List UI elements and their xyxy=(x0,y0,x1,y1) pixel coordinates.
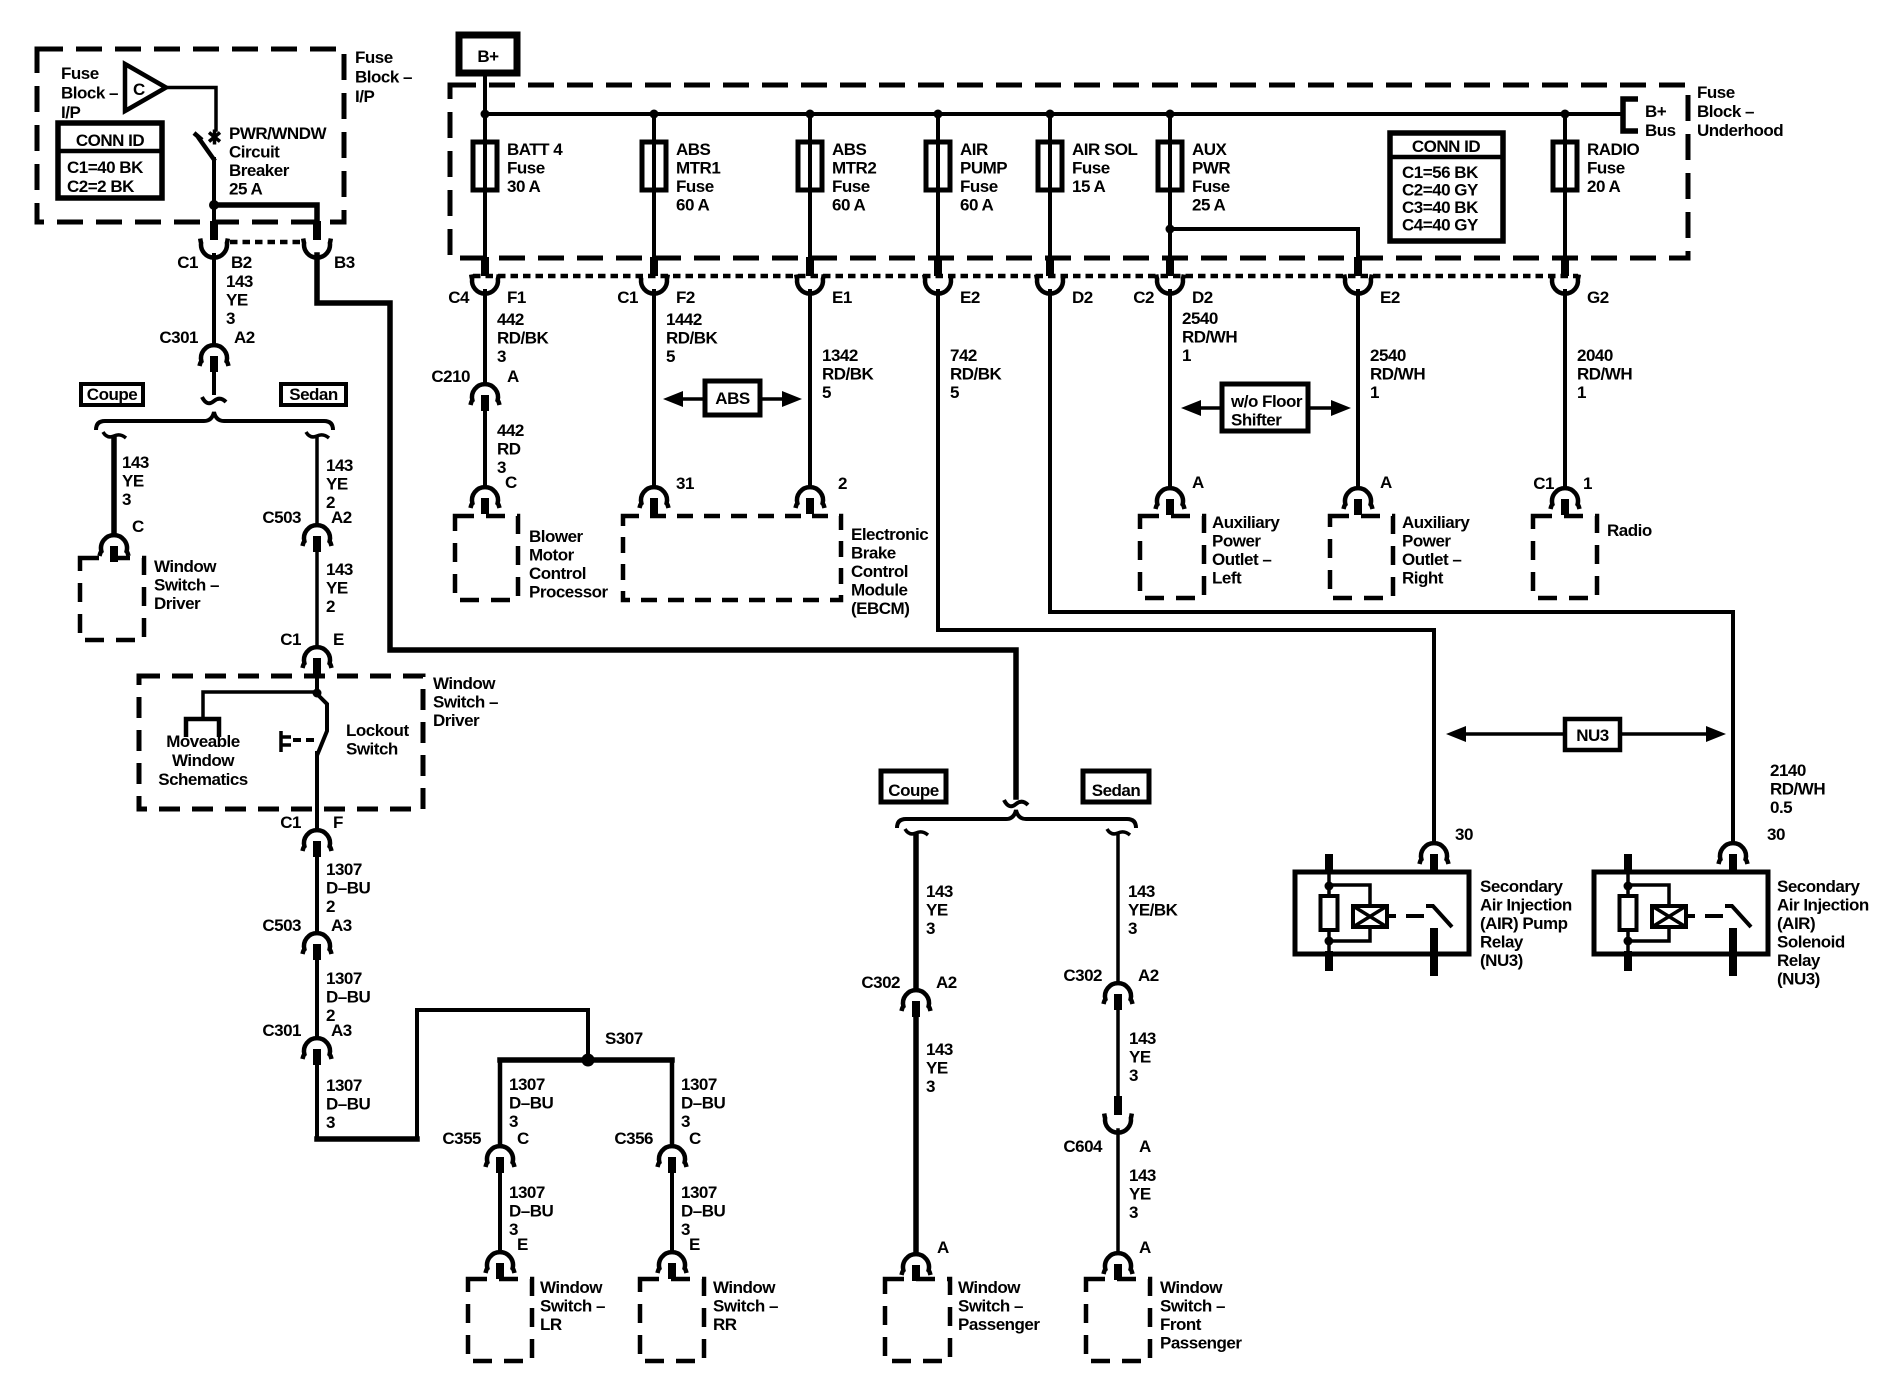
svg-text:Driver: Driver xyxy=(154,594,201,613)
svg-text:Switch –: Switch – xyxy=(713,1297,778,1316)
hook coupe passenger wire xyxy=(905,829,928,835)
NU3 label xyxy=(1576,726,1609,745)
svg-text:3: 3 xyxy=(326,1113,335,1132)
svg-text:30: 30 xyxy=(1455,825,1473,844)
connector C301 A3 xyxy=(303,1038,332,1065)
svg-text:YE: YE xyxy=(1129,1048,1151,1067)
svg-text:C301: C301 xyxy=(159,328,198,347)
svg-text:2540: 2540 xyxy=(1182,309,1218,328)
svg-text:3: 3 xyxy=(1129,1066,1138,1085)
svg-text:RD/BK: RD/BK xyxy=(950,365,1003,384)
bus junction (AUX PWR) xyxy=(1166,110,1175,119)
svg-text:143: 143 xyxy=(226,272,253,291)
svg-text:G2: G2 xyxy=(1587,288,1609,307)
svg-text:2: 2 xyxy=(326,897,335,916)
svg-text:Secondary: Secondary xyxy=(1480,877,1563,896)
dotted connector line (fuse row) xyxy=(473,274,1578,279)
svg-text:Front: Front xyxy=(1160,1315,1202,1334)
svg-text:C302: C302 xyxy=(1063,966,1102,985)
svg-text:A: A xyxy=(507,367,519,386)
wire label 2040 RD/WH 1 xyxy=(1577,346,1632,402)
wire label 1307 D-BU 3 (C355 upper) xyxy=(509,1075,554,1131)
CONN ID box (underhood) xyxy=(1390,133,1503,241)
svg-text:20 A: 20 A xyxy=(1587,177,1621,196)
svg-text:Module: Module xyxy=(851,581,908,600)
svg-text:Control: Control xyxy=(529,564,586,583)
labels C604 A xyxy=(1063,1137,1151,1156)
svg-text:RD/BK: RD/BK xyxy=(666,329,719,348)
svg-text:Switch –: Switch – xyxy=(433,693,498,712)
window switch driver label (lockout box) xyxy=(433,674,498,730)
svg-text:Switch –: Switch – xyxy=(1160,1297,1225,1316)
svg-text:MTR1: MTR1 xyxy=(676,159,720,178)
wire label 1307 D-BU 2 (mid) xyxy=(326,969,371,1025)
svg-text:YE: YE xyxy=(926,1059,948,1078)
connector B3 xyxy=(303,221,331,258)
svg-text:143: 143 xyxy=(1129,1029,1156,1048)
connector C503 A3 xyxy=(303,933,332,960)
svg-text:RD/WH: RD/WH xyxy=(1770,780,1825,799)
svg-text:C301: C301 xyxy=(262,1021,301,1040)
svg-text:0.5: 0.5 xyxy=(1770,798,1792,817)
svg-text:D–BU: D–BU xyxy=(681,1202,726,1221)
svg-text:E1: E1 xyxy=(832,288,852,307)
blower motor label xyxy=(529,527,609,602)
svg-text:3: 3 xyxy=(926,1077,935,1096)
svg-text:Switch –: Switch – xyxy=(540,1297,605,1316)
svg-text:Window: Window xyxy=(1160,1278,1223,1297)
svg-text:31: 31 xyxy=(676,474,694,493)
svg-text:1: 1 xyxy=(1370,383,1379,402)
svg-text:Fuse: Fuse xyxy=(1587,159,1625,178)
B+ terminal box xyxy=(459,35,517,73)
connector C355 xyxy=(486,1146,515,1173)
svg-text:YE: YE xyxy=(926,901,948,920)
sedan driver wire 1 xyxy=(315,438,319,524)
moveable window bracket xyxy=(186,719,219,737)
connector C301 A2 xyxy=(200,345,229,372)
Sedan variant box (passenger) xyxy=(1083,771,1149,802)
w/o floor shifter variant box xyxy=(1222,384,1308,431)
wire label 143 YE 3 (coupe pass lower) xyxy=(926,1040,953,1096)
connector 2 EBCM xyxy=(796,487,825,514)
lockout junction xyxy=(313,689,322,698)
svg-text:YE: YE xyxy=(1129,1185,1151,1204)
secondary air injection solenoid relay coil top junction xyxy=(1624,882,1633,891)
junction AUX PWR branch xyxy=(1166,225,1175,234)
svg-text:C2: C2 xyxy=(1133,288,1154,307)
svg-text:RD/BK: RD/BK xyxy=(497,329,550,348)
wire label 1307 D-BU 3 (lower) xyxy=(326,1076,371,1132)
wire F1 to C210 xyxy=(483,291,487,383)
svg-text:C4: C4 xyxy=(448,288,470,307)
secondary air injection pump relay coil resistor xyxy=(1321,896,1338,930)
bus junction (AIR SOL) xyxy=(1046,110,1055,119)
svg-text:Switch –: Switch – xyxy=(154,576,219,595)
fuse block I/P label (inside) xyxy=(61,64,118,122)
secondary air injection pump relay winding branch top xyxy=(1329,885,1370,906)
wire label 143 YE 3 (B2) xyxy=(226,272,253,328)
wire C301 to brace xyxy=(212,373,216,393)
secondary air injection solenoid relay winding branch bottom xyxy=(1628,927,1669,941)
secondary air injection solenoid relay pin bottom-right xyxy=(1729,928,1737,976)
svg-text:143: 143 xyxy=(1128,882,1155,901)
wire jog to S307 drop xyxy=(417,1008,586,1012)
sedan passenger wire 3 xyxy=(1116,1130,1120,1252)
wire label 1307 D-BU 3 (C355 lower) xyxy=(509,1183,554,1239)
svg-text:A: A xyxy=(937,1238,949,1257)
svg-text:MTR2: MTR2 xyxy=(832,159,876,178)
wire label 1307 D-BU 3 (C356 upper) xyxy=(681,1075,726,1131)
svg-text:C2=2 BK: C2=2 BK xyxy=(67,177,135,196)
connector E1 at x=810 xyxy=(796,257,824,294)
circuit breaker contact asterisk xyxy=(209,130,220,145)
Coupe label (driver) xyxy=(87,385,137,404)
labels C302 A2 (coupe) xyxy=(861,973,956,992)
svg-text:Fuse: Fuse xyxy=(507,159,545,178)
labels D2 xyxy=(1072,288,1093,307)
svg-text:Driver: Driver xyxy=(433,711,480,730)
svg-text:C4=40 GY: C4=40 GY xyxy=(1402,216,1479,235)
svg-text:D–BU: D–BU xyxy=(326,879,371,898)
fuse BATT 4 xyxy=(473,142,497,190)
svg-text:3: 3 xyxy=(926,919,935,938)
svg-text:C: C xyxy=(505,473,517,492)
junction at breaker output xyxy=(209,200,219,210)
Sedan label (passenger) xyxy=(1092,781,1141,800)
label A (coupe pass) xyxy=(937,1238,949,1257)
wire label 742 RD/BK 5 xyxy=(950,346,1003,402)
svg-text:1307: 1307 xyxy=(326,969,362,988)
svg-text:1342: 1342 xyxy=(822,346,858,365)
svg-text:Switch: Switch xyxy=(346,740,398,759)
radio box xyxy=(1533,516,1597,598)
svg-text:RD/WH: RD/WH xyxy=(1370,365,1425,384)
svg-text:1: 1 xyxy=(1182,346,1191,365)
secondary air injection pump relay pin top-left xyxy=(1325,854,1333,870)
window switch LR label xyxy=(540,1278,605,1334)
svg-text:Right: Right xyxy=(1402,569,1444,588)
wire C1F to C503A3 xyxy=(315,858,319,932)
svg-text:AIR SOL: AIR SOL xyxy=(1072,140,1138,159)
svg-text:C: C xyxy=(132,517,144,536)
svg-text:Fuse: Fuse xyxy=(61,64,99,83)
svg-text:Moveable: Moveable xyxy=(166,732,240,751)
connector G2 at x=1565 xyxy=(1551,257,1579,294)
svg-text:C1: C1 xyxy=(280,630,301,649)
fuse block I/P label (outside right) xyxy=(355,48,412,106)
connector C1 E xyxy=(303,647,332,674)
svg-text:PWR: PWR xyxy=(1192,159,1230,178)
svg-text:Control: Control xyxy=(851,562,908,581)
svg-text:3: 3 xyxy=(226,309,235,328)
label E (RR) xyxy=(689,1235,700,1254)
label E (LR) xyxy=(517,1235,528,1254)
connector C1-1 radio xyxy=(1551,488,1580,515)
svg-text:B+: B+ xyxy=(1645,102,1667,121)
svg-text:Secondary: Secondary xyxy=(1777,877,1860,896)
window switch driver box (coupe) xyxy=(80,558,144,640)
labels C356 C xyxy=(614,1129,701,1148)
connector E window switch RR xyxy=(658,1252,687,1279)
wire C210 to blower xyxy=(483,412,487,486)
svg-text:3: 3 xyxy=(1129,1203,1138,1222)
connector F2 at x=654 xyxy=(640,257,668,294)
wire E1 to EBCM xyxy=(808,291,812,486)
svg-text:Processor: Processor xyxy=(529,583,609,602)
secondary air injection pump relay switch blade xyxy=(1426,906,1452,927)
secondary air injection solenoid relay box xyxy=(1594,872,1768,954)
svg-text:Window: Window xyxy=(172,751,235,770)
connector 30 pump relay xyxy=(1420,843,1449,870)
wire break squiggle (passenger) xyxy=(1004,800,1028,806)
circuit breaker blade xyxy=(194,133,215,161)
svg-text:PUMP: PUMP xyxy=(960,159,1007,178)
fuse label RADIO xyxy=(1587,140,1640,196)
svg-text:Power: Power xyxy=(1212,532,1261,551)
svg-text:Auxiliary: Auxiliary xyxy=(1212,513,1280,532)
svg-text:60 A: 60 A xyxy=(832,196,866,215)
svg-text:A: A xyxy=(1192,473,1204,492)
secondary air injection pump relay coil bottom junction xyxy=(1325,937,1334,946)
label A (sedan pass) xyxy=(1139,1238,1151,1257)
window switch RR label xyxy=(713,1278,778,1334)
svg-text:A3: A3 xyxy=(331,916,352,935)
connector C210 A xyxy=(471,384,500,411)
svg-text:C3=40 BK: C3=40 BK xyxy=(1402,198,1479,217)
svg-text:1307: 1307 xyxy=(326,860,362,879)
label A (aux right) xyxy=(1380,473,1392,492)
wire corner thick run xyxy=(317,1136,417,1142)
svg-text:Fuse: Fuse xyxy=(1072,159,1110,178)
wire label 2540 RD/WH 1 (left) xyxy=(1182,309,1237,365)
svg-text:Outlet –: Outlet – xyxy=(1402,550,1461,569)
svg-text:C1: C1 xyxy=(617,288,638,307)
svg-text:F1: F1 xyxy=(507,288,526,307)
labels C1 F xyxy=(280,813,343,832)
svg-text:B3: B3 xyxy=(334,253,355,272)
connector C1 B2 xyxy=(200,221,228,258)
svg-text:A: A xyxy=(1139,1137,1151,1156)
svg-text:Window: Window xyxy=(433,674,496,693)
fuse ABS MTR2 xyxy=(798,142,822,190)
svg-text:Relay: Relay xyxy=(1480,933,1524,952)
svg-text:Brake: Brake xyxy=(851,544,896,563)
sedan passenger wire 1 xyxy=(1116,835,1120,982)
svg-text:143: 143 xyxy=(926,882,953,901)
hook coupe driver wire xyxy=(103,432,126,438)
svg-text:YE: YE xyxy=(226,291,248,310)
fuse AUX PWR xyxy=(1158,142,1182,190)
svg-text:1307: 1307 xyxy=(509,1183,545,1202)
S307 bus xyxy=(500,1057,672,1063)
svg-text:E: E xyxy=(689,1235,700,1254)
connector D2 at x=1170 xyxy=(1156,257,1184,294)
wire B+ to bus xyxy=(483,74,487,142)
connector A window switch passenger xyxy=(902,1254,931,1281)
svg-text:2: 2 xyxy=(838,474,847,493)
svg-text:Coupe: Coupe xyxy=(87,385,137,404)
svg-text:C356: C356 xyxy=(614,1129,653,1148)
w/o floor shifter arrow left xyxy=(1181,400,1222,416)
secondary air injection solenoid relay label xyxy=(1777,877,1869,989)
wire F2 to EBCM xyxy=(652,291,656,486)
connector F1 at x=485 xyxy=(471,257,499,294)
wire bus to AUX PWR fuse xyxy=(1168,114,1172,143)
svg-text:Left: Left xyxy=(1212,569,1242,588)
wire drop to S307 xyxy=(586,1010,590,1060)
B+ bus bracket xyxy=(1623,99,1638,131)
svg-text:1307: 1307 xyxy=(681,1075,717,1094)
svg-text:E: E xyxy=(333,630,344,649)
wire C355 down xyxy=(498,1174,502,1251)
bus junction (BATT 4) xyxy=(481,110,490,119)
sedan driver wire 2 xyxy=(315,553,319,646)
wire label 1307 D-BU 3 (C356 lower) xyxy=(681,1183,726,1239)
svg-text:2040: 2040 xyxy=(1577,346,1613,365)
svg-text:143: 143 xyxy=(326,560,353,579)
svg-text:B2: B2 xyxy=(231,253,252,272)
wire junction to B3 xyxy=(216,205,317,221)
connector C blower motor xyxy=(471,487,500,514)
label C (coupe driver) xyxy=(132,517,144,536)
connector A window switch front passenger xyxy=(1104,1253,1133,1280)
label C (blower) xyxy=(505,473,517,492)
svg-text:Window: Window xyxy=(154,557,217,576)
svg-text:Switch –: Switch – xyxy=(958,1297,1023,1316)
wire D2 air sol to relay 30 xyxy=(1050,291,1733,843)
fuse label ABS MTR1 xyxy=(676,140,720,215)
svg-text:(EBCM): (EBCM) xyxy=(851,599,909,618)
aux outlet right label xyxy=(1402,513,1470,588)
svg-text:Auxiliary: Auxiliary xyxy=(1402,513,1470,532)
connector 30 solenoid relay xyxy=(1719,843,1748,870)
svg-text:C2=40 GY: C2=40 GY xyxy=(1402,181,1479,200)
wire D2 aux left xyxy=(1168,291,1172,487)
Sedan variant box (driver) xyxy=(281,384,346,405)
window switch LR box xyxy=(468,1279,532,1361)
svg-text:Sedan: Sedan xyxy=(1092,781,1141,800)
svg-text:Fuse: Fuse xyxy=(676,177,714,196)
wire C356 down xyxy=(670,1174,674,1251)
window switch RR box xyxy=(640,1279,704,1361)
wire E2 air pump to relay 30 xyxy=(938,291,1434,843)
connector D2 at x=1050 xyxy=(1036,257,1064,294)
svg-text:E: E xyxy=(517,1235,528,1254)
svg-text:Fuse: Fuse xyxy=(832,177,870,196)
coupe driver wire xyxy=(111,438,117,534)
svg-text:C: C xyxy=(517,1129,529,1148)
svg-text:RD/BK: RD/BK xyxy=(822,365,875,384)
wire E2 aux right xyxy=(1356,291,1360,487)
EBCM label xyxy=(851,525,928,618)
svg-text:Air Injection: Air Injection xyxy=(1777,896,1869,915)
circuit breaker label xyxy=(229,124,327,199)
connector C302 A2 (coupe) xyxy=(902,990,931,1017)
svg-text:A: A xyxy=(1139,1238,1151,1257)
labels C1 B2 xyxy=(177,253,252,272)
svg-text:Fuse: Fuse xyxy=(1192,177,1230,196)
svg-text:C1=56 BK: C1=56 BK xyxy=(1402,163,1479,182)
svg-text:F: F xyxy=(333,813,343,832)
secondary air injection pump relay box xyxy=(1295,872,1469,954)
fuse AIR PUMP xyxy=(926,142,950,190)
svg-text:2: 2 xyxy=(326,597,335,616)
lockout switch blade xyxy=(317,694,327,753)
NU3 arrow right xyxy=(1620,726,1726,742)
svg-text:Fuse: Fuse xyxy=(1697,83,1735,102)
secondary air injection pump relay actuator dashed link xyxy=(1387,914,1424,918)
svg-text:YE: YE xyxy=(326,579,348,598)
labels C355 C xyxy=(442,1129,529,1148)
auxiliary power outlet left box xyxy=(1140,516,1204,598)
svg-text:1307: 1307 xyxy=(509,1075,545,1094)
label 2 (EBCM) xyxy=(838,474,847,493)
fuse ABS MTR1 xyxy=(642,142,666,190)
secondary air injection pump relay coil wire top xyxy=(1327,868,1331,897)
bus junction (RADIO) xyxy=(1561,110,1570,119)
svg-text:Radio: Radio xyxy=(1607,521,1652,540)
svg-text:D–BU: D–BU xyxy=(326,988,371,1007)
wire bus to RADIO fuse xyxy=(1563,114,1567,143)
svg-text:Electronic: Electronic xyxy=(851,525,928,544)
window switch front passenger label xyxy=(1160,1278,1242,1353)
svg-text:742: 742 xyxy=(950,346,977,365)
secondary air injection pump relay pin bottom-right xyxy=(1430,928,1438,976)
secondary air injection solenoid relay winding branch top xyxy=(1628,885,1669,906)
svg-text:2540: 2540 xyxy=(1370,346,1406,365)
svg-text:30: 30 xyxy=(1767,825,1785,844)
wire B3 run to passenger split xyxy=(317,255,1016,797)
fuse block I/P dashed outline xyxy=(37,49,344,222)
svg-text:Coupe: Coupe xyxy=(888,781,938,800)
svg-text:C503: C503 xyxy=(262,508,301,527)
window switch driver (lockout) box xyxy=(139,676,423,809)
label 30 (pump relay) xyxy=(1455,825,1473,844)
CONN ID values (underhood) xyxy=(1402,163,1479,235)
secondary air injection solenoid relay actuator dashed link xyxy=(1686,914,1723,918)
B+ bus line xyxy=(485,112,1621,116)
fuse block underhood label xyxy=(1697,83,1783,140)
labels C503 A2 xyxy=(262,508,351,527)
svg-text:Air Injection: Air Injection xyxy=(1480,896,1572,915)
svg-text:D–BU: D–BU xyxy=(509,1094,554,1113)
wire AIR SOL fuse to connector xyxy=(1048,190,1052,257)
wire label 143 YE 3 (coupe driver) xyxy=(122,453,149,509)
CONN ID header (I/P) xyxy=(76,131,145,150)
labels C301 A3 xyxy=(262,1021,351,1040)
svg-text:25 A: 25 A xyxy=(1192,196,1226,215)
svg-text:Block –: Block – xyxy=(61,84,118,103)
labels E2 xyxy=(960,288,980,307)
bus junction (ABS MTR1) xyxy=(650,110,659,119)
svg-text:A2: A2 xyxy=(936,973,957,992)
svg-text:Schematics: Schematics xyxy=(158,770,248,789)
lockout actuator dashed link xyxy=(293,738,314,742)
svg-text:D2: D2 xyxy=(1072,288,1093,307)
svg-text:C1=40 BK: C1=40 BK xyxy=(67,158,144,177)
wire bus to ABS MTR2 fuse xyxy=(808,114,812,143)
svg-text:C302: C302 xyxy=(861,973,900,992)
label 31 (EBCM) xyxy=(676,474,694,493)
coupe passenger wire 2 xyxy=(913,1018,919,1253)
svg-text:C1: C1 xyxy=(280,813,301,832)
NU3 variant box xyxy=(1565,719,1620,750)
CONN ID values (I/P) xyxy=(67,158,144,196)
triangle connector C xyxy=(125,64,166,111)
svg-text:E2: E2 xyxy=(960,288,980,307)
wire label 1307 D-BU 2 (upper) xyxy=(326,860,371,916)
